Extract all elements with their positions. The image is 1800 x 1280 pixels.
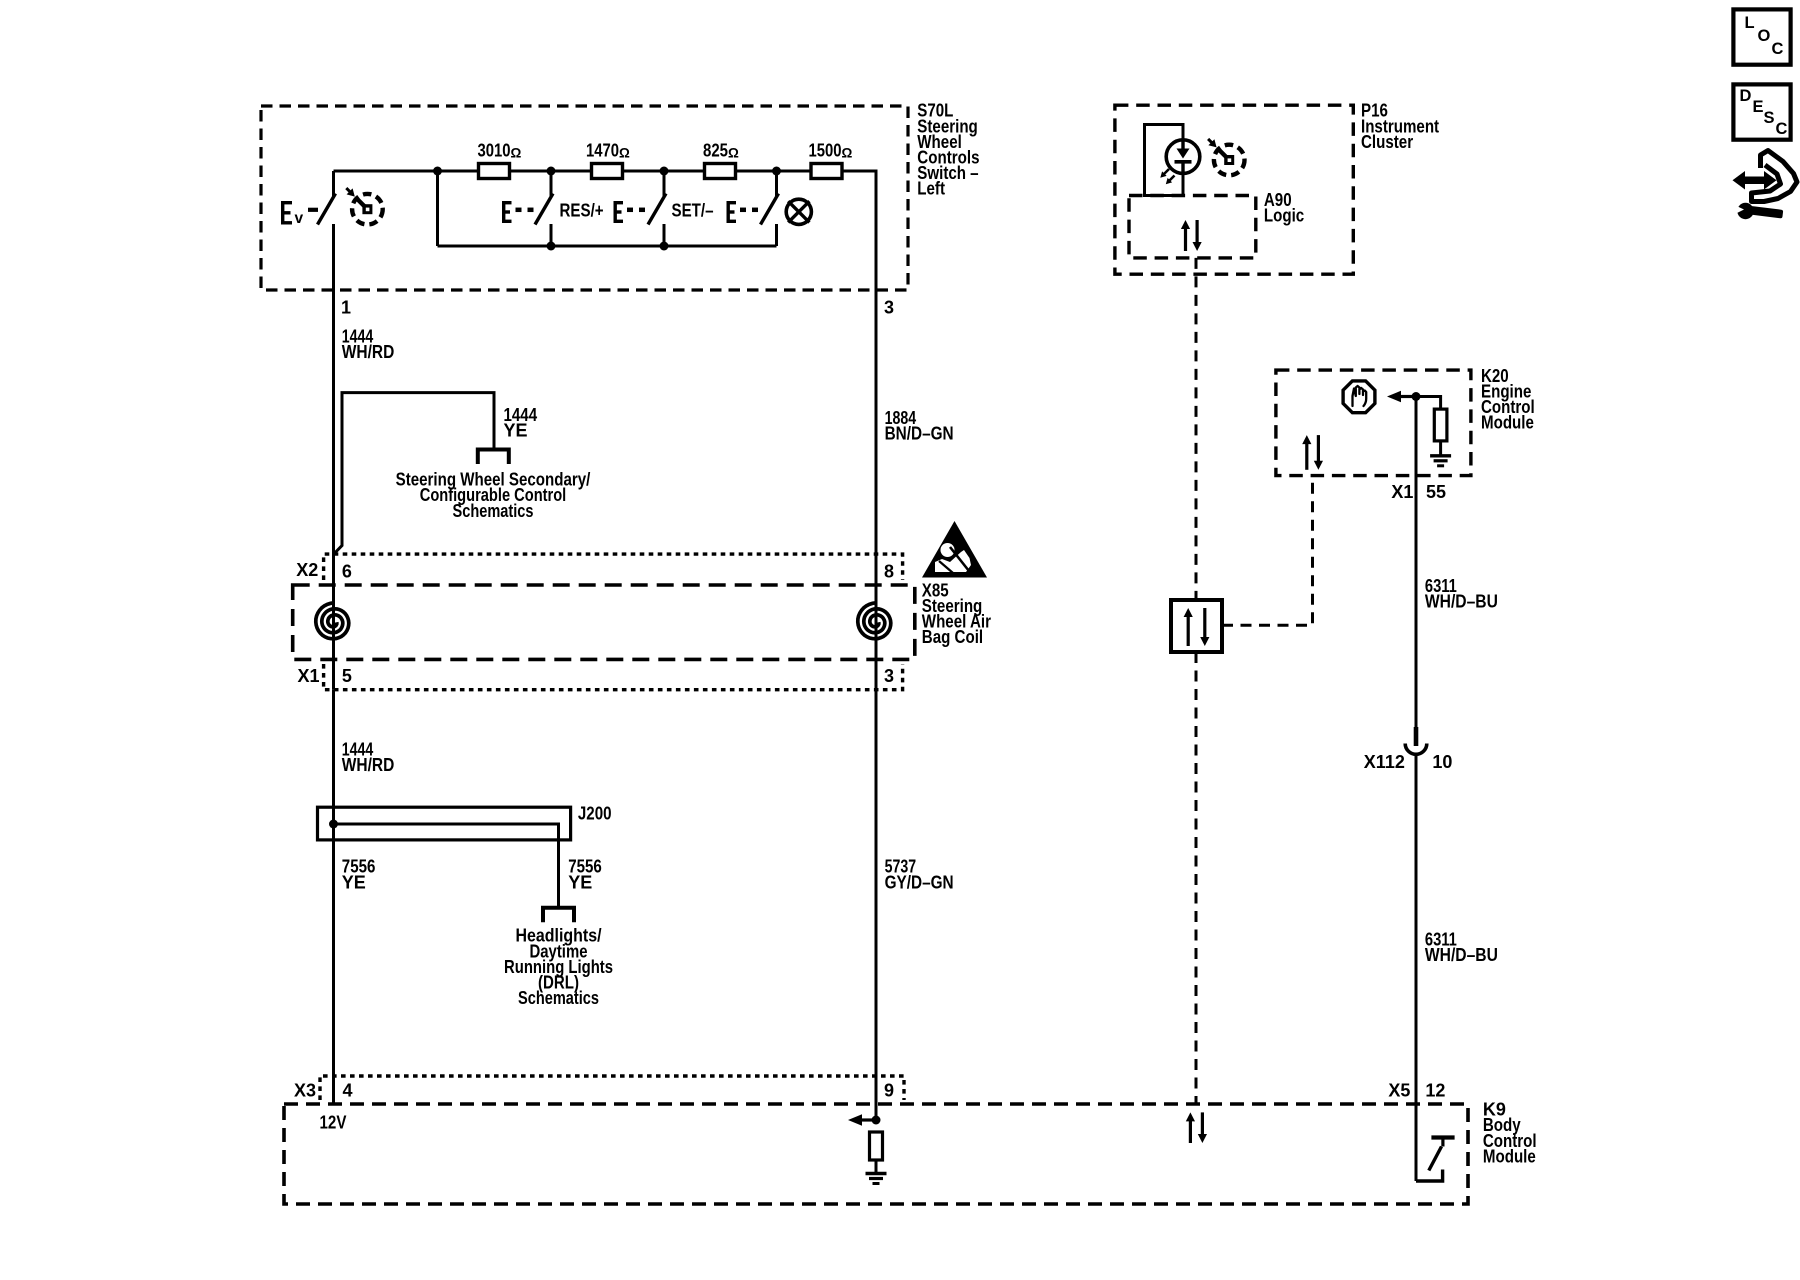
wire top bus inside S70L <box>334 171 877 290</box>
wire switch common bottom rail <box>438 245 777 248</box>
switch S2 RES/+ upper stub <box>550 171 553 196</box>
serial data arrows A90 <box>1184 227 1187 251</box>
svg-text:WH/RD: WH/RD <box>342 342 395 362</box>
wire 6311 WH/D-BU from K20 X1-55 to X112 <box>1415 397 1418 728</box>
switch S1 blade <box>318 194 336 225</box>
switch S1 upper stub <box>332 171 335 196</box>
serial data arrows K20 <box>1305 442 1308 470</box>
svg-text:X1: X1 <box>298 666 320 686</box>
svg-text:8: 8 <box>884 561 894 581</box>
resistor internal K9 <box>870 1132 883 1160</box>
svg-text:L: L <box>1745 14 1755 32</box>
svg-text:SET/–: SET/– <box>672 200 714 220</box>
svg-text:O: O <box>1758 27 1771 45</box>
svg-text:YE: YE <box>342 872 366 892</box>
svg-text:Schematics: Schematics <box>453 501 534 521</box>
wire 6311 WH/D-BU from X112 to K9 X5-12 <box>1415 754 1418 1181</box>
svg-text:D: D <box>1740 87 1752 105</box>
svg-text:S: S <box>1764 109 1775 127</box>
svg-text:Ω: Ω <box>728 146 739 161</box>
svg-text:12: 12 <box>1425 1080 1445 1100</box>
symbol Ev (switch actuator label) <box>281 201 292 225</box>
svg-text:3010: 3010 <box>478 141 511 161</box>
component box X85 Steering Wheel Air Bag Coil <box>293 585 915 659</box>
connector X3 dotted bracket <box>320 1076 904 1100</box>
svg-text:Ω: Ω <box>511 146 522 161</box>
svg-text:Left: Left <box>917 179 945 199</box>
half-connector to Headlights/DRL Schematics <box>543 908 574 923</box>
svg-text:Bag Coil: Bag Coil <box>922 627 983 647</box>
svg-text:BN/D–GN: BN/D–GN <box>885 424 954 444</box>
svg-text:Schematics: Schematics <box>518 988 599 1008</box>
serial data wire splice box to K9 (dashed) <box>1195 652 1198 1104</box>
svg-text:YE: YE <box>568 872 592 892</box>
svg-text:9: 9 <box>884 1080 894 1100</box>
resistor internal K20 <box>1434 409 1447 441</box>
svg-text:WH/RD: WH/RD <box>342 755 395 775</box>
svg-text:12V: 12V <box>320 1112 347 1132</box>
inline connector X112 socket arc <box>1405 744 1427 755</box>
svg-text:Module: Module <box>1481 413 1534 433</box>
svg-text:3: 3 <box>884 666 894 686</box>
LED emission arrows <box>1164 169 1170 175</box>
icon stop-hand octagon <box>1343 381 1375 413</box>
indicator drive box (LED branch) <box>1145 125 1184 196</box>
serial data wire A90 to splice box (dashed) <box>1195 258 1198 600</box>
svg-text:RES/+: RES/+ <box>560 200 604 220</box>
airbag warning triangle icon <box>922 521 987 578</box>
junction K9 internal <box>872 1116 881 1125</box>
switch S3 SET/- upper stub <box>663 171 666 196</box>
svg-text:Cluster: Cluster <box>1361 132 1413 152</box>
wire internal K9 to switch contact <box>1416 1170 1443 1182</box>
ground symbol K9 <box>866 1172 887 1175</box>
wire 1884 BN/D-GN from S70L pin 3 to X85 pin 8 <box>875 290 878 585</box>
icon gauge (speedometer) S1 <box>352 194 383 225</box>
dash link E to S2 <box>516 208 522 213</box>
svg-text:10: 10 <box>1432 752 1452 772</box>
switch internal K9 blade <box>1429 1147 1442 1171</box>
junction top bus / switch common riser <box>433 167 442 176</box>
serial data splice box <box>1171 600 1222 652</box>
svg-text:3: 3 <box>884 297 894 317</box>
junction J200 splice <box>329 820 338 829</box>
switch S3 SET/- lower stub <box>663 224 666 246</box>
svg-text:Ω: Ω <box>619 146 630 161</box>
splice bus inside J200 <box>334 824 559 907</box>
coil spiral left (air bag coil) <box>316 603 349 639</box>
symbol E (S2 actuator) <box>502 201 512 223</box>
svg-text:Logic: Logic <box>1264 206 1304 226</box>
svg-text:5: 5 <box>342 666 352 686</box>
svg-text:X112: X112 <box>1364 752 1405 772</box>
svg-text:E: E <box>1753 98 1764 116</box>
svg-text:C: C <box>1776 120 1788 138</box>
ground symbol K20 <box>1430 454 1451 457</box>
wire 7556 YE from J200 to X3 pin 4 <box>332 840 335 1104</box>
resistor 1500 ohm <box>811 164 842 179</box>
switch internal K9 (output driver) T-bar <box>1431 1135 1454 1139</box>
svg-text:J200: J200 <box>578 803 612 823</box>
wire resistor to ground K20 <box>1439 441 1442 455</box>
component box K9 Body Control Module <box>284 1104 1468 1204</box>
serial data arrows in splice box <box>1187 615 1190 646</box>
svg-text:Ω: Ω <box>842 146 853 161</box>
component box A90 Logic <box>1129 196 1256 258</box>
symbol E (S4 actuator) <box>727 201 737 223</box>
connector X1 dotted bracket <box>324 664 903 690</box>
svg-text:YE: YE <box>504 421 528 441</box>
switch S4 illumination upper stub <box>775 171 778 196</box>
splice pack J200 box <box>318 807 571 840</box>
coil spiral right (air bag coil) <box>858 603 891 639</box>
icon box LOC <box>1733 9 1790 64</box>
icon gauge (speedometer) P16 <box>1214 145 1245 176</box>
component box K20 Engine Control Module <box>1276 370 1471 476</box>
wire 1444 WH/RD from S70L pin 1 to X85 pin 6 <box>332 290 335 585</box>
svg-text:4: 4 <box>343 1080 353 1100</box>
svg-text:C: C <box>1772 40 1784 58</box>
svg-text:6: 6 <box>342 561 352 581</box>
switch S4 illumination lower stub <box>775 224 778 246</box>
icon schematic navigation (double arrow) <box>1733 171 1777 190</box>
svg-text:55: 55 <box>1426 482 1446 502</box>
icon schematic navigation (open arrow outline) <box>1752 151 1798 202</box>
svg-text:X2: X2 <box>296 560 318 580</box>
symbol E (S3 actuator) <box>614 201 624 223</box>
svg-text:1500: 1500 <box>809 141 842 161</box>
wire through X85 left (pin 6 to pin 5) <box>332 585 335 690</box>
inline connector X112 pin <box>1414 727 1419 746</box>
wire through J200 (vertical) <box>332 807 335 840</box>
junction bottom rail / SET switch <box>660 242 669 251</box>
icon schematic navigation (wrench) <box>1737 203 1753 219</box>
junction top bus / RES switch <box>547 167 556 176</box>
LED indicator (cruise lamp) <box>1166 140 1200 174</box>
continuation arrow inside K20 <box>1387 391 1401 402</box>
component box S70L Steering Wheel Controls Switch - Left <box>261 106 908 290</box>
dash link E to S4 <box>740 208 746 213</box>
svg-text:Module: Module <box>1483 1146 1536 1166</box>
wire through X85 right (pin 8 to pin 3) <box>875 585 878 690</box>
junction top bus / illumination switch <box>772 167 781 176</box>
serial data wire splice box to K20 (dashed) <box>1222 476 1313 626</box>
svg-text:WH/D–BU: WH/D–BU <box>1425 945 1498 965</box>
icon lamp (circle-X) illumination <box>786 199 811 224</box>
connector X2 dotted bracket <box>324 554 903 580</box>
svg-text:WH/D–BU: WH/D–BU <box>1425 592 1498 612</box>
wire to internal pull-up resistor K20 <box>1416 397 1441 410</box>
wire resistor to ground K9 <box>875 1160 878 1173</box>
wire switch-common riser <box>436 171 439 246</box>
switch S3 SET/- blade <box>648 194 666 225</box>
svg-text:1: 1 <box>341 297 351 317</box>
continuation arrow inside K9 (to other circuits) <box>848 1114 862 1125</box>
serial data arrows K9 <box>1189 1119 1192 1143</box>
junction top bus / SET switch <box>660 167 669 176</box>
half-connector to Steering Wheel Secondary Control Schematics <box>478 450 509 465</box>
icon box DESC <box>1733 84 1790 139</box>
wire 5737 GY/D-GN from X85 pin 3 to X3 pin 9 <box>875 690 878 1120</box>
resistor 825 ohm <box>705 164 736 179</box>
junction K20 internal <box>1412 392 1421 401</box>
svg-text:X1: X1 <box>1391 482 1413 502</box>
svg-text:1470: 1470 <box>586 141 619 161</box>
svg-text:X5: X5 <box>1388 1080 1410 1100</box>
wire 1444 WH/RD from X85 pin 5 to J200 <box>332 690 335 808</box>
dash link E to S3 <box>627 208 633 213</box>
dash link Ev to S1 <box>308 208 318 212</box>
resistor 3010 ohm <box>479 164 510 179</box>
component box P16 Instrument Cluster <box>1115 105 1353 274</box>
switch S1 lower wire to pin 1 <box>332 224 335 290</box>
switch S2 RES/+ lower stub <box>550 224 553 246</box>
svg-text:X3: X3 <box>294 1080 316 1100</box>
svg-text:v: v <box>295 210 304 227</box>
switch S4 illumination blade <box>761 194 779 225</box>
svg-text:GY/D–GN: GY/D–GN <box>885 872 954 892</box>
switch S2 RES/+ blade <box>535 194 553 225</box>
junction bottom rail / RES switch <box>547 242 556 251</box>
wire branch 1444 YE <box>334 393 494 554</box>
resistor 1470 ohm <box>592 164 623 179</box>
svg-text:825: 825 <box>703 141 728 161</box>
